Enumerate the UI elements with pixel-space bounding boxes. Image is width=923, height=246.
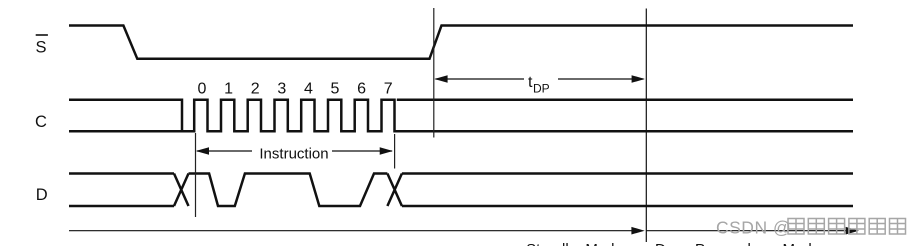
node: vertical reference line at S-bar rising edge xyxy=(433,8,435,138)
wire: D low rail right xyxy=(402,205,853,208)
wire: D low rail left xyxy=(69,205,174,208)
node: vertical reference line at end of tDP xyxy=(645,9,647,243)
svg-text:S: S xyxy=(36,38,47,56)
wire: D instruction data bits (B9h pattern) xyxy=(189,174,388,207)
wire: C low rail with 8 clock pulses xyxy=(69,100,853,132)
wire: D high rail right xyxy=(402,172,853,175)
svg-text:Instruction: Instruction xyxy=(259,145,328,162)
wire: C high rail right (don't care after instruction) xyxy=(397,98,853,101)
svg-text:3: 3 xyxy=(277,81,286,98)
svg-text:CSDN @: CSDN @ xyxy=(716,218,791,238)
svg-text:1: 1 xyxy=(224,81,233,98)
svg-text:DP: DP xyxy=(533,82,550,96)
svg-text:D: D xyxy=(36,186,48,204)
watermark CSDN xyxy=(716,218,906,238)
label tDP xyxy=(528,74,550,96)
wire: standby mode timeline arrow xyxy=(69,227,645,235)
node: instruction left boundary line xyxy=(195,133,197,217)
svg-text:6: 6 xyxy=(357,81,366,98)
svg-text:2: 2 xyxy=(251,81,260,98)
wire: tDP dimension arrow left xyxy=(434,75,524,83)
wire: tDP dimension arrow right xyxy=(558,75,645,83)
node: clock cycle numbers 0-7 xyxy=(198,81,393,98)
svg-text:0: 0 xyxy=(198,81,207,98)
svg-text:5: 5 xyxy=(331,81,340,98)
node: D crossover X left xyxy=(174,174,189,207)
label S (signal S-bar) xyxy=(36,34,48,56)
svg-text:7: 7 xyxy=(384,81,393,98)
wire: deep power-down mode timeline arrow xyxy=(646,227,859,235)
wire: C high rail left (don't care) dropping at x=182 xyxy=(69,100,182,132)
wire: S-bar waveform xyxy=(69,26,853,59)
node: D crossover X right xyxy=(387,174,402,207)
svg-text:C: C xyxy=(35,113,47,131)
wire: D high rail left xyxy=(69,172,174,175)
svg-text:Standby Mode: Standby Mode xyxy=(526,241,623,246)
wire: Instruction dimension arrow left xyxy=(196,147,252,155)
svg-text:Deep Power-down Mode: Deep Power-down Mode xyxy=(655,241,820,246)
node: instruction right boundary line xyxy=(394,134,396,169)
wire: Instruction dimension arrow right xyxy=(332,147,393,155)
svg-text:4: 4 xyxy=(304,81,313,98)
